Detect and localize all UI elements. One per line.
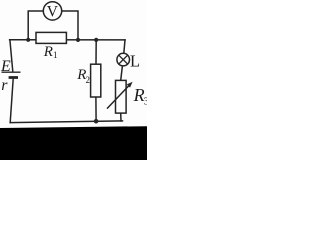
svg-text:V: V [47, 3, 59, 20]
svg-text:r: r [1, 77, 8, 94]
svg-text:2: 2 [86, 75, 91, 85]
svg-text:3: 3 [144, 97, 147, 108]
svg-text:1: 1 [53, 50, 58, 60]
svg-text:E: E [0, 58, 11, 75]
svg-text:R: R [43, 44, 53, 60]
svg-text:L: L [130, 51, 140, 70]
